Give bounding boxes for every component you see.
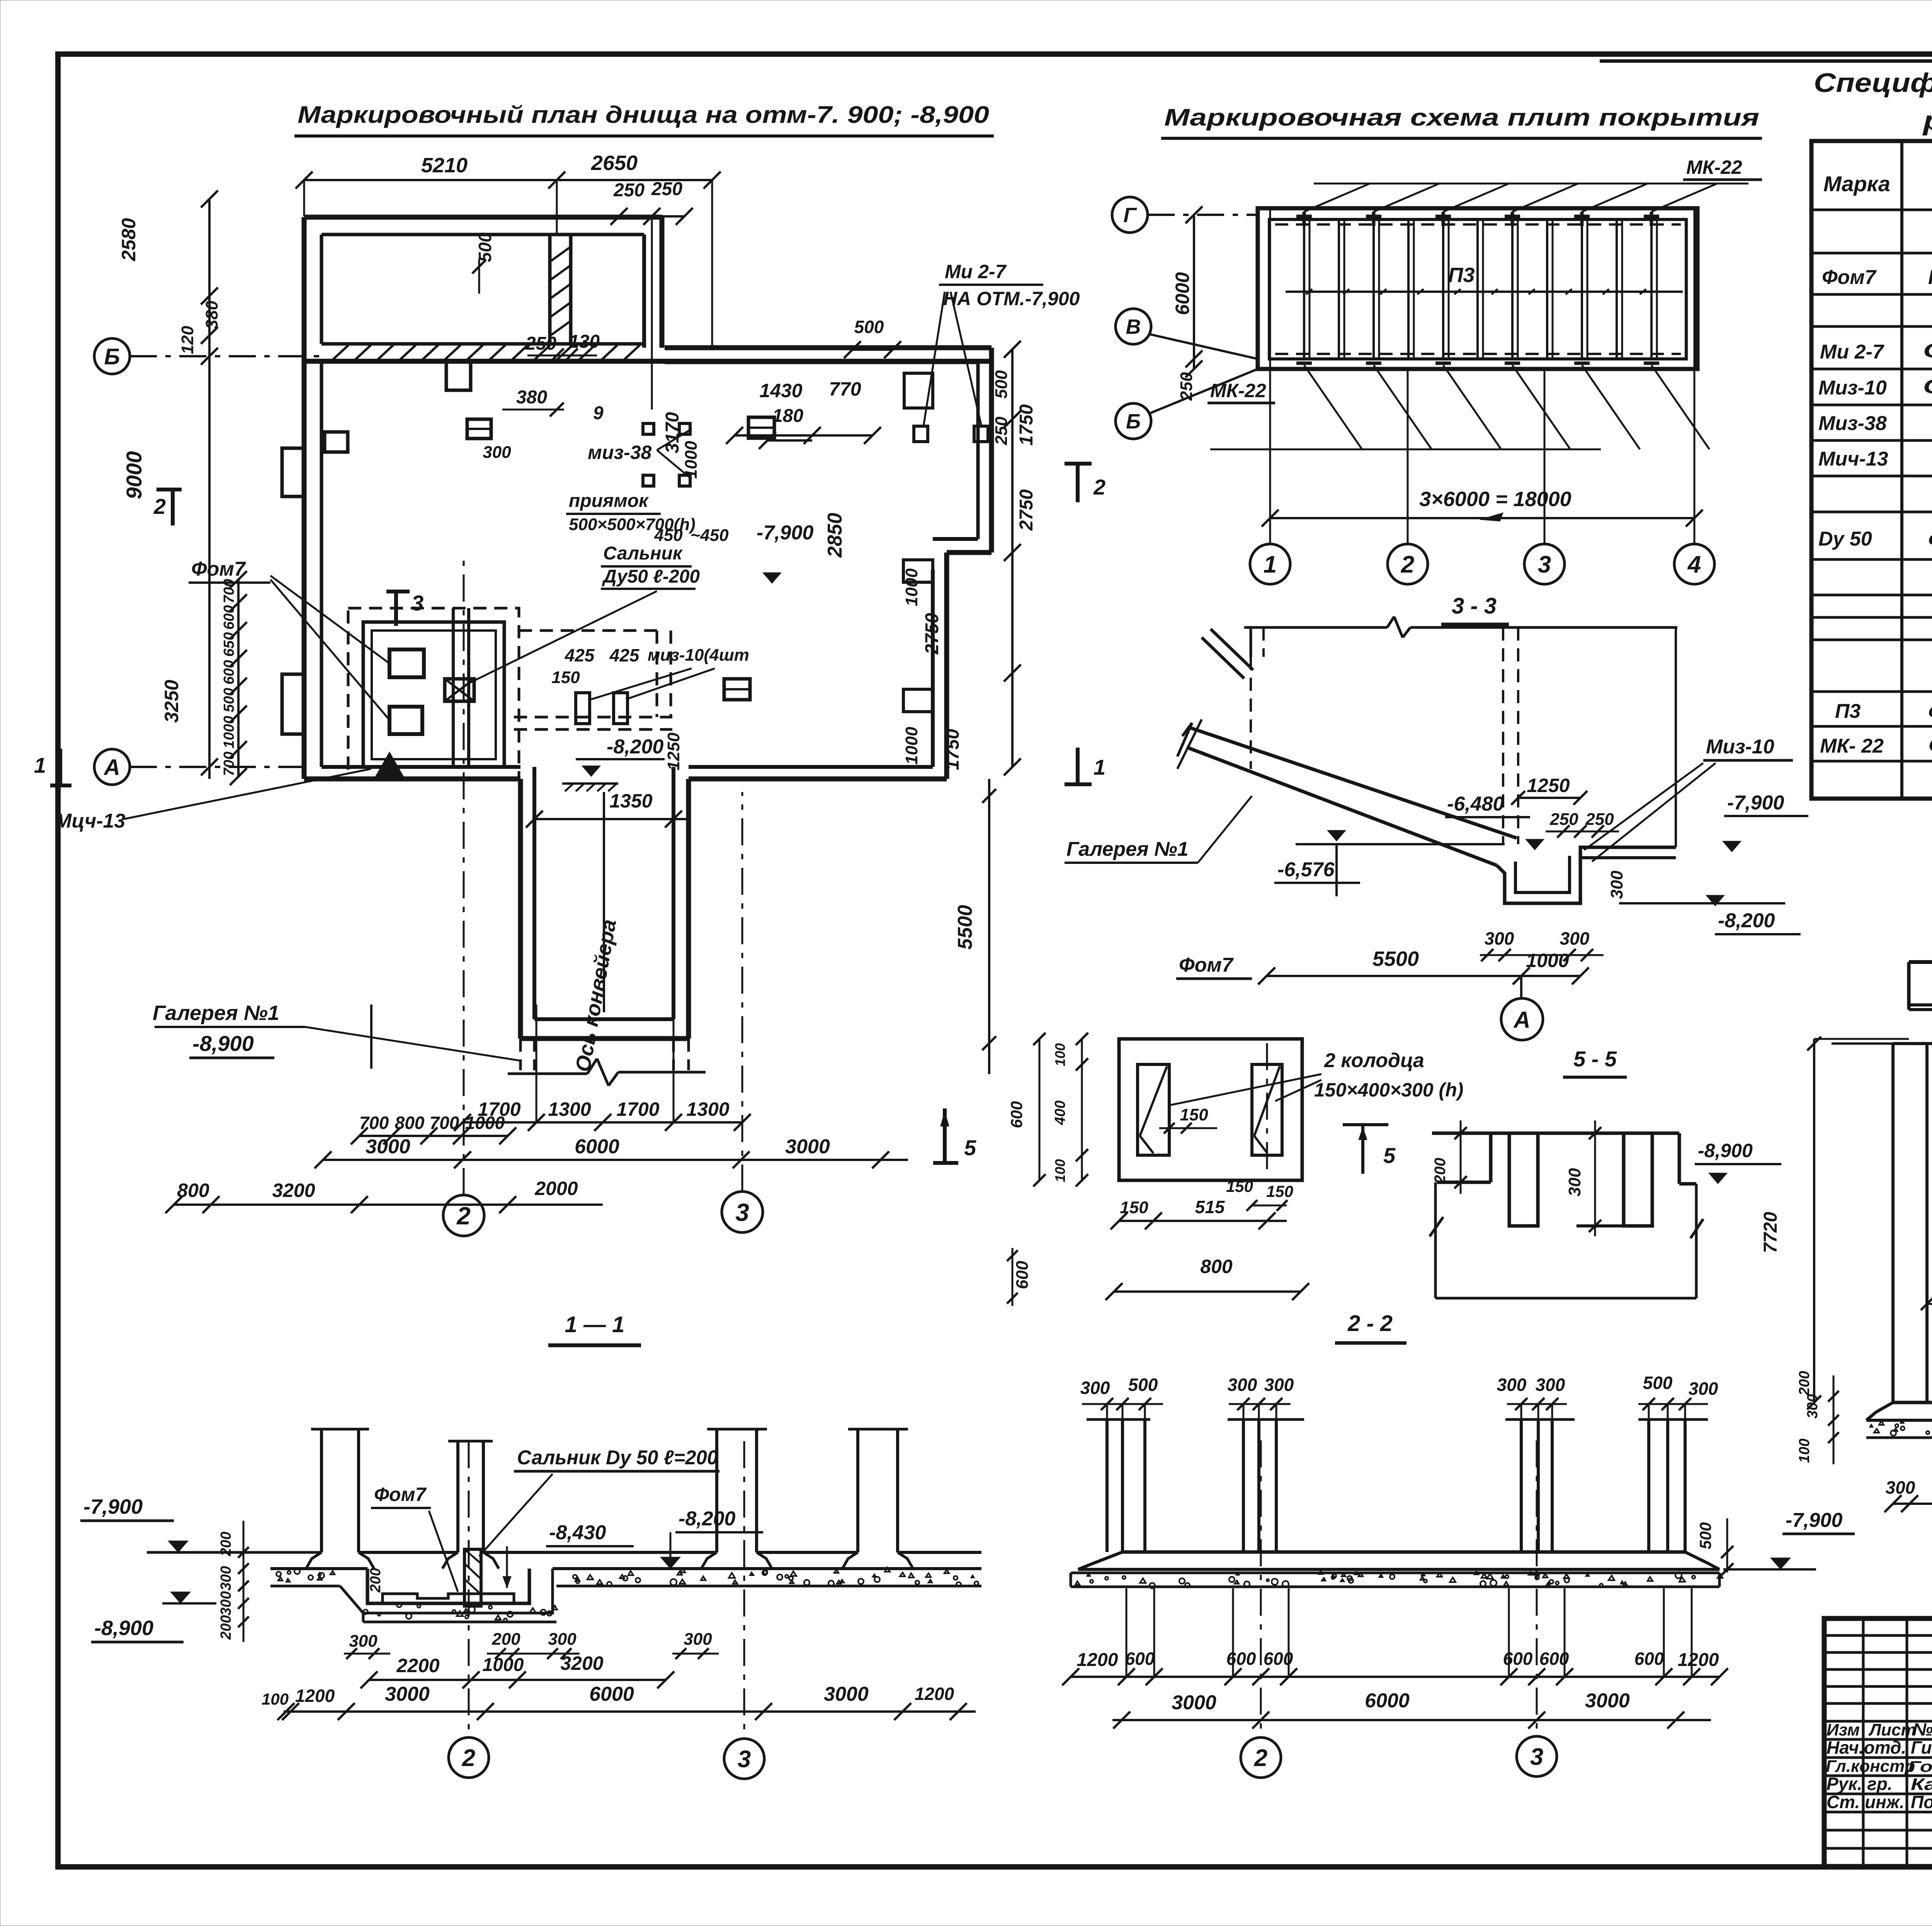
svg-text:А: А (103, 755, 120, 780)
svg-text:1200: 1200 (1678, 1650, 1719, 1670)
svg-text:3170: 3170 (662, 412, 683, 453)
svg-text:100: 100 (1052, 1043, 1068, 1066)
svg-text:2: 2 (462, 1745, 475, 1771)
svg-text:300: 300 (1080, 1378, 1110, 1398)
svg-text:1350: 1350 (609, 790, 652, 812)
svg-text:1250: 1250 (664, 733, 683, 770)
svg-text:500: 500 (1643, 1373, 1673, 1393)
svg-text:А: А (1513, 1007, 1530, 1033)
svg-text:500: 500 (475, 232, 495, 262)
svg-text:250: 250 (1585, 810, 1614, 829)
svg-text:Лист: Лист (1868, 1720, 1916, 1739)
svg-text:3250: 3250 (161, 680, 182, 722)
svg-text:5500: 5500 (954, 905, 976, 950)
svg-text:100: 100 (262, 1690, 289, 1708)
svg-text:3: 3 (738, 1746, 751, 1773)
svg-text:6000: 6000 (1365, 1690, 1410, 1712)
svg-text:1000: 1000 (221, 716, 237, 749)
svg-text:5500: 5500 (1372, 947, 1419, 971)
svg-text:-8,900: -8,900 (94, 1617, 153, 1640)
svg-text:Фом7: Фом7 (374, 1484, 427, 1505)
svg-text:серия НН24-9: серия НН24-9 (1928, 699, 1932, 722)
svg-text:300: 300 (349, 1632, 378, 1651)
svg-text:-7,900: -7,900 (83, 1495, 143, 1518)
svg-text:-8,430: -8,430 (549, 1521, 606, 1544)
svg-text:180: 180 (772, 406, 803, 426)
svg-text:Галерея №1: Галерея №1 (153, 1001, 279, 1025)
svg-text:5: 5 (1383, 1143, 1396, 1168)
svg-text:Серия 3.400 б л 33: Серия 3.400 б л 33 (1923, 340, 1932, 362)
svg-text:2: 2 (1401, 551, 1414, 578)
svg-text:300: 300 (1485, 928, 1514, 949)
svg-text:120: 120 (178, 326, 197, 354)
svg-text:200: 200 (1432, 1158, 1449, 1184)
svg-text:130: 130 (569, 331, 600, 352)
svg-text:Марка: Марка (1823, 172, 1890, 196)
svg-text:1430: 1430 (759, 380, 802, 401)
svg-text:1: 1 (34, 753, 46, 777)
svg-text:-8,200: -8,200 (1718, 909, 1775, 932)
svg-text:1750: 1750 (1016, 404, 1037, 445)
svg-text:250: 250 (651, 179, 682, 199)
svg-text:2750: 2750 (1016, 489, 1037, 531)
svg-text:Миз-38: Миз-38 (1818, 412, 1887, 435)
svg-text:миз-10(4шт: миз-10(4шт (648, 646, 749, 665)
svg-text:300: 300 (1689, 1379, 1718, 1399)
svg-text:2000: 2000 (534, 1178, 578, 1199)
svg-text:Ст. инж.: Ст. инж. (1827, 1792, 1905, 1812)
svg-text:Фом7: Фом7 (191, 558, 246, 580)
svg-text:800: 800 (395, 1113, 425, 1133)
svg-text:приямок: приямок (569, 491, 649, 511)
svg-text:Сальник Dy 50 ℓ=200: Сальник Dy 50 ℓ=200 (517, 1447, 718, 1469)
svg-text:-7,900: -7,900 (1727, 792, 1784, 814)
svg-text:6000: 6000 (575, 1136, 619, 1158)
svg-text:-7,900: -7,900 (1786, 1509, 1843, 1532)
svg-text:300: 300 (483, 443, 511, 462)
svg-text:3: 3 (735, 1198, 749, 1226)
svg-text:100: 100 (1052, 1159, 1068, 1182)
svg-text:250: 250 (1549, 810, 1578, 829)
svg-text:3000: 3000 (1585, 1690, 1630, 1712)
svg-text:Ми 2-7: Ми 2-7 (1820, 341, 1884, 363)
svg-text:300: 300 (1560, 928, 1590, 949)
svg-text:1000: 1000 (902, 568, 921, 606)
svg-text:-7,900: -7,900 (757, 522, 814, 544)
svg-text:СЕРИЯ 2 430 -3, В.3: СЕРИЯ 2 430 -3, В.3 (1928, 734, 1932, 756)
svg-text:300: 300 (1886, 1477, 1915, 1498)
svg-text:4: 4 (1687, 551, 1701, 578)
svg-text:1000: 1000 (902, 727, 921, 765)
svg-text:9: 9 (593, 403, 604, 423)
svg-text:700: 700 (221, 751, 237, 776)
svg-text:~450: ~450 (690, 526, 729, 545)
svg-text:700: 700 (430, 1113, 459, 1133)
svg-text:5210: 5210 (421, 154, 468, 177)
svg-text:250: 250 (525, 333, 556, 354)
svg-text:3: 3 (1530, 1744, 1543, 1770)
svg-text:7720: 7720 (1760, 1212, 1781, 1253)
svg-text:3 - 3: 3 - 3 (1452, 593, 1497, 619)
svg-text:600: 600 (1007, 1101, 1026, 1128)
svg-text:Попкова: Попкова (1911, 1792, 1932, 1812)
svg-text:3000: 3000 (824, 1683, 869, 1705)
svg-text:1: 1 (1094, 755, 1105, 779)
svg-text:серия 3.901-5: серия 3.901-5 (1928, 527, 1932, 549)
svg-text:Касьянова: Касьянова (1911, 1775, 1932, 1794)
svg-text:6000: 6000 (1172, 272, 1193, 315)
svg-text:П3: П3 (1448, 263, 1475, 287)
svg-text:2850: 2850 (824, 513, 846, 558)
svg-text:250: 250 (992, 416, 1011, 445)
svg-text:500: 500 (1696, 1522, 1714, 1549)
svg-text:300: 300 (1804, 1394, 1821, 1418)
svg-text:800: 800 (177, 1180, 209, 1201)
svg-text:300: 300 (548, 1630, 577, 1649)
svg-text:300: 300 (1228, 1375, 1257, 1395)
svg-text:770: 770 (829, 378, 861, 400)
svg-text:3000: 3000 (1172, 1691, 1216, 1714)
svg-text:3200: 3200 (272, 1180, 315, 1201)
svg-text:515: 515 (1195, 1197, 1225, 1217)
svg-text:5: 5 (964, 1136, 976, 1160)
svg-text:2: 2 (1093, 475, 1105, 499)
svg-text:Гин: Гин (1911, 1737, 1932, 1758)
svg-text:3×6000 = 18000: 3×6000 = 18000 (1419, 488, 1571, 511)
svg-text:1300: 1300 (686, 1098, 729, 1120)
svg-text:200: 200 (1796, 1371, 1813, 1396)
svg-text:2: 2 (153, 494, 166, 518)
svg-text:1200: 1200 (295, 1686, 335, 1706)
svg-text:380: 380 (516, 387, 547, 408)
svg-text:-8,200: -8,200 (607, 736, 664, 758)
svg-text:250: 250 (1177, 372, 1196, 401)
svg-text:500: 500 (221, 688, 237, 712)
svg-text:Сальник: Сальник (603, 543, 683, 564)
svg-text:Галерея №1: Галерея №1 (1066, 838, 1189, 860)
svg-text:1200: 1200 (915, 1684, 954, 1704)
svg-text:300: 300 (1264, 1375, 1294, 1395)
svg-text:К Ж 3 23: К Ж 3 23 (1928, 266, 1932, 289)
svg-text:150: 150 (551, 668, 580, 687)
svg-text:250: 250 (613, 180, 645, 201)
svg-text:1750: 1750 (942, 729, 963, 770)
svg-text:600: 600 (1634, 1649, 1664, 1669)
svg-text:Гольденшлагер: Гольденшлагер (1908, 1758, 1932, 1775)
svg-text:150: 150 (1180, 1105, 1208, 1124)
svg-text:2650: 2650 (591, 151, 638, 175)
svg-text:-6,576: -6,576 (1277, 858, 1335, 881)
svg-text:150×400×300 (h): 150×400×300 (h) (1314, 1079, 1463, 1101)
svg-text:600: 600 (1503, 1649, 1533, 1669)
svg-text:3000: 3000 (785, 1136, 830, 1158)
svg-text:Нач.отд.: Нач.отд. (1827, 1737, 1906, 1758)
svg-text:300: 300 (218, 1591, 234, 1615)
svg-text:300: 300 (218, 1566, 234, 1590)
svg-text:500: 500 (992, 370, 1011, 399)
svg-text:2: 2 (456, 1202, 471, 1230)
svg-text:2580: 2580 (118, 218, 139, 261)
svg-text:800: 800 (1200, 1256, 1233, 1277)
svg-text:1000: 1000 (1526, 950, 1569, 971)
svg-text:3200: 3200 (560, 1652, 603, 1674)
svg-text:600: 600 (1013, 1261, 1032, 1289)
svg-text:Ми 2-7: Ми 2-7 (945, 261, 1007, 282)
svg-text:2: 2 (1254, 1745, 1267, 1771)
svg-text:5 - 5: 5 - 5 (1573, 1047, 1617, 1071)
svg-text:Мцч-13: Мцч-13 (55, 810, 125, 832)
svg-text:6000: 6000 (589, 1683, 634, 1705)
svg-text:Рук. гр.: Рук. гр. (1827, 1774, 1893, 1794)
svg-text:В: В (1126, 315, 1141, 338)
svg-text:150: 150 (1226, 1177, 1253, 1195)
svg-text:600: 600 (221, 605, 237, 629)
svg-text:Б: Б (104, 344, 120, 369)
svg-text:НА ОТМ.-7,900: НА ОТМ.-7,900 (943, 288, 1080, 309)
svg-text:3: 3 (1538, 551, 1551, 578)
svg-text:2 - 2: 2 - 2 (1347, 1311, 1393, 1336)
svg-text:Ду50 ℓ-200: Ду50 ℓ-200 (602, 566, 700, 587)
svg-text:380: 380 (202, 301, 221, 329)
svg-text:миз-38: миз-38 (588, 442, 652, 463)
svg-text:-8,900: -8,900 (1698, 1140, 1753, 1161)
svg-text:500: 500 (1128, 1375, 1158, 1395)
svg-text:МК-22: МК-22 (1686, 156, 1742, 178)
svg-text:600: 600 (1125, 1649, 1155, 1669)
svg-text:300: 300 (1536, 1375, 1565, 1395)
svg-text:425: 425 (609, 645, 640, 665)
svg-text:Мич-13: Мич-13 (1818, 448, 1888, 470)
svg-text:100: 100 (1796, 1438, 1813, 1463)
svg-text:МК-22: МК-22 (1210, 380, 1266, 401)
svg-text:Маркировочная схема плит по: Маркировочная схема плит покрытия (1164, 104, 1759, 131)
svg-text:200: 200 (218, 1615, 234, 1640)
svg-text:1700: 1700 (616, 1098, 659, 1120)
svg-text:Фом7: Фом7 (1179, 954, 1234, 976)
svg-text:3: 3 (412, 591, 423, 615)
svg-text:600: 600 (221, 660, 237, 684)
svg-text:200: 200 (218, 1532, 234, 1556)
svg-text:№ докум: № докум (1913, 1719, 1932, 1739)
svg-text:Миз-10: Миз-10 (1706, 736, 1774, 758)
svg-text:2 колодца: 2 колодца (1324, 1049, 1424, 1072)
svg-text:650: 650 (221, 632, 237, 656)
svg-text:расположенным на листе: расположенным на листе (1922, 105, 1932, 136)
svg-text:Dy 50: Dy 50 (1818, 528, 1872, 550)
svg-text:Б: Б (1126, 410, 1141, 433)
svg-text:-6,480: -6,480 (1447, 793, 1504, 815)
svg-text:1300: 1300 (548, 1098, 591, 1120)
svg-text:Г: Г (1123, 204, 1137, 227)
svg-text:300: 300 (1497, 1375, 1527, 1395)
svg-text:200: 200 (492, 1630, 520, 1649)
svg-text:300: 300 (1565, 1168, 1584, 1197)
svg-text:300: 300 (684, 1630, 712, 1649)
svg-text:Спецификация элементов к мар: Спецификация элементов к маркировочным с… (1814, 68, 1932, 98)
svg-text:П3: П3 (1835, 700, 1861, 722)
svg-text:700: 700 (359, 1113, 389, 1133)
svg-text:-8,200: -8,200 (679, 1508, 736, 1530)
svg-text:1200: 1200 (1077, 1650, 1118, 1670)
svg-text:3000: 3000 (385, 1683, 430, 1705)
svg-text:425: 425 (565, 645, 595, 665)
svg-text:200: 200 (367, 1568, 384, 1593)
svg-text:1250: 1250 (1527, 775, 1570, 796)
svg-text:2750: 2750 (922, 613, 942, 654)
svg-text:1000: 1000 (483, 1655, 524, 1675)
svg-text:150: 150 (1266, 1182, 1293, 1200)
svg-text:500: 500 (854, 317, 884, 337)
svg-text:9000: 9000 (122, 451, 146, 500)
svg-text:Гл.констр: Гл.констр (1826, 1757, 1915, 1776)
svg-text:300: 300 (1607, 870, 1626, 899)
svg-text:600: 600 (1226, 1649, 1256, 1669)
svg-text:1000: 1000 (465, 1113, 505, 1133)
svg-text:1: 1 (1264, 551, 1277, 578)
svg-text:Фом7: Фом7 (1822, 266, 1877, 289)
svg-text:2200: 2200 (396, 1655, 439, 1676)
svg-text:450: 450 (654, 526, 683, 545)
svg-text:400: 400 (1052, 1100, 1068, 1125)
svg-text:Изм: Изм (1827, 1720, 1860, 1739)
svg-text:Миз-10: Миз-10 (1818, 377, 1887, 399)
svg-text:1 — 1: 1 — 1 (565, 1312, 625, 1337)
svg-text:МК- 22: МК- 22 (1820, 735, 1884, 757)
svg-text:-8,900: -8,900 (192, 1031, 254, 1056)
svg-text:Серия 3.400-6 л. 48: Серия 3.400-6 л. 48 (1923, 376, 1932, 398)
svg-text:Маркировочный план днища на о: Маркировочный план днища на отм-7. 900; … (298, 102, 989, 128)
